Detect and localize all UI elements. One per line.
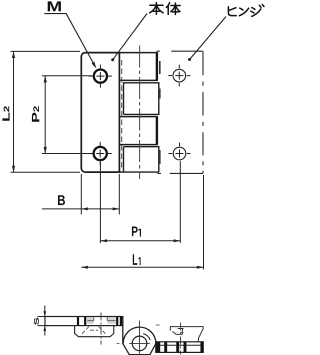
dimension S lines — [38, 306, 47, 336]
dimension S arrows — [43, 311, 46, 316]
label L1 — [133, 254, 137, 265]
side view: right leaf plate — [156, 342, 203, 353]
side view: pin circle — [132, 336, 147, 351]
knuckle seg3 of body — [119, 117, 157, 145]
label P2 — [32, 113, 39, 122]
body hole 1 — [94, 70, 107, 83]
side view: boss below left leaf — [75, 326, 114, 337]
dimension L1 arrows — [81, 266, 88, 269]
side view: hidden countersink cone — [82, 327, 107, 335]
center mark of hinge hole 1 — [168, 65, 190, 87]
side view: right leaf hidden screw head — [170, 327, 203, 342]
hinge hole 1 — [173, 69, 186, 82]
center mark of body hole 2 — [89, 142, 112, 165]
dimension P1 arrows — [100, 239, 107, 242]
leader line of label M — [44, 14, 95, 67]
dimension B lines — [42, 174, 119, 215]
side view: right leaf inner line — [156, 344, 203, 346]
hinge pin centerline — [139, 46, 141, 180]
hidden line at knuckle root — [121, 60, 123, 170]
label hinji (hinge) — [228, 5, 264, 17]
side view: hidden dashes near right leaf — [156, 325, 184, 333]
side view: knuckle lobe — [123, 317, 156, 355]
dimension P2 arrows — [44, 76, 47, 83]
dimension P2 extension lines — [42, 76, 92, 154]
side view: countersink walls on left leaf — [78, 317, 121, 326]
hinge hole 2 — [173, 147, 186, 160]
side view: left leaf plate — [45, 317, 123, 326]
knuckle seg2 of hinge — [124, 83, 159, 115]
hidden dashes right of knuckles — [159, 61, 161, 164]
body plate outline — [81, 53, 119, 173]
center mark of hinge hole 2 — [169, 143, 191, 158]
label L2 — [2, 113, 9, 121]
side view: hidden countersink detail — [87, 317, 94, 324]
leader line of label hinji — [190, 17, 227, 60]
label M — [48, 1, 61, 11]
knuckle seg1 of body — [119, 53, 157, 81]
label B — [58, 195, 65, 205]
dimension L2 extension lines — [11, 51, 81, 172]
dimension L1 lines — [81, 175, 203, 270]
hinge leaf dashed outline — [157, 51, 204, 173]
side view: right leaf screw centerline — [180, 323, 182, 355]
label P1 — [132, 227, 138, 237]
knuckle seg4 of hinge — [119, 147, 158, 172]
side view: curl seam arc — [143, 334, 150, 340]
dimension L2 arrows — [12, 51, 15, 58]
dimension B arrows — [81, 207, 88, 210]
side view: pin center marks — [129, 321, 150, 355]
side view: hidden dash left of lobe — [117, 342, 121, 344]
label S — [34, 318, 39, 325]
side view: right leaf countersink walls — [156, 342, 161, 353]
dimension P1 lines — [100, 161, 180, 243]
body hole 2 — [94, 147, 107, 160]
center mark of body hole 1 — [89, 65, 112, 88]
leader line of label hontai — [113, 14, 147, 60]
side view: screw centerline — [100, 313, 102, 345]
label hontai (body) — [150, 3, 181, 15]
